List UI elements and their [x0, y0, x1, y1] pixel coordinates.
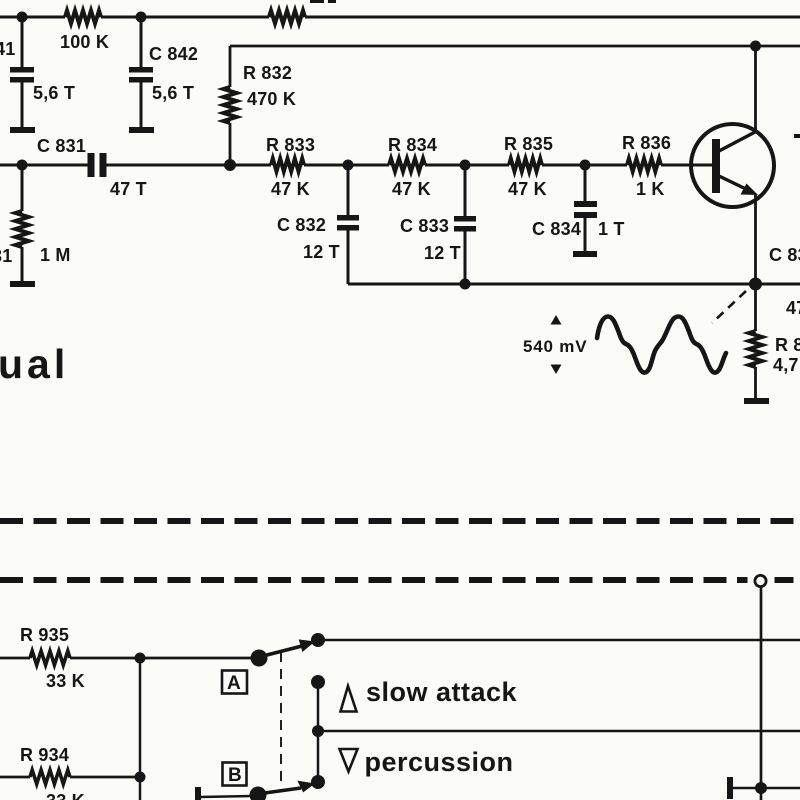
white gap for terminal circle	[748, 574, 775, 587]
switch A arm	[261, 646, 302, 657]
svg-text:100 K: 100 K	[60, 32, 109, 52]
capacitor C841	[10, 67, 34, 73]
svg-text:slow attack: slow attack	[366, 677, 518, 707]
dashed callout to waveform	[712, 291, 746, 323]
marker triangle up (slow attack)	[341, 686, 357, 712]
capacitor C833	[454, 216, 476, 222]
resistor R832	[224, 87, 237, 123]
svg-text:R 833: R 833	[266, 135, 315, 155]
wire C833 top lead	[464, 165, 467, 216]
resistor R837	[749, 331, 762, 367]
svg-text:R 837: R 837	[775, 335, 800, 355]
text fragment cut at top	[310, 0, 324, 3]
svg-text:1 M: 1 M	[40, 245, 71, 265]
text fragment cut at top 2	[328, 0, 336, 3]
wire terminal down	[760, 587, 763, 800]
wire R833 to R834	[304, 164, 389, 167]
dashed coupling line A-B	[280, 652, 282, 787]
resistor R833	[271, 159, 304, 172]
svg-text:33 K: 33 K	[46, 671, 85, 691]
svg-text:R 836: R 836	[622, 133, 671, 153]
svg-text:C 842: C 842	[149, 44, 198, 64]
resistor 100K (top)	[65, 11, 101, 24]
svg-text:1 T: 1 T	[598, 219, 625, 239]
resistor (top, unlabeled)	[269, 11, 305, 24]
svg-text:1 K: 1 K	[636, 179, 665, 199]
wire B lead	[200, 796, 252, 797]
node R934 junction	[135, 772, 146, 783]
resistor R831 1M	[16, 211, 29, 247]
wire C834 bottom lead	[584, 218, 587, 252]
ground R837	[744, 398, 769, 404]
marker triangle down (percussion)	[340, 749, 358, 772]
svg-text:5,6 T: 5,6 T	[152, 83, 194, 103]
svg-text:47 K: 47 K	[392, 179, 431, 199]
ground C842	[129, 127, 154, 133]
wire R832 top lead	[229, 46, 232, 87]
wire R831 top lead	[21, 165, 24, 211]
node percussion junction	[312, 725, 324, 737]
node C834 junction	[580, 160, 591, 171]
switch B common contact	[250, 787, 267, 800]
arrow up marker	[551, 315, 562, 325]
wire R934 to bus	[70, 776, 140, 779]
svg-text:C 831: C 831	[37, 136, 86, 156]
wire feedback rail	[230, 45, 800, 48]
svg-text:R 834: R 834	[388, 135, 437, 155]
switch B arm	[261, 788, 301, 794]
svg-text:C 835: C 835	[769, 245, 800, 265]
resistor R934	[30, 770, 70, 784]
wire C832 top lead	[347, 165, 350, 215]
svg-text:R 835: R 835	[504, 134, 553, 154]
wire R837 top lead	[754, 284, 757, 331]
node emitter junction	[749, 278, 762, 291]
svg-text:ual: ual	[0, 341, 69, 387]
wire top rail middle	[101, 16, 269, 19]
resistor R836	[627, 159, 661, 172]
wire C831 to R833	[105, 164, 271, 167]
svg-text:4,7 K: 4,7 K	[773, 355, 800, 375]
node R935 junction	[135, 653, 146, 664]
wire top rail left	[0, 16, 65, 19]
svg-text:47 K: 47 K	[271, 179, 310, 199]
capacitor C842	[129, 67, 153, 73]
wire percussion row	[318, 730, 800, 732]
wire left bus down	[139, 658, 142, 800]
svg-text:B: B	[228, 765, 242, 786]
svg-text:R 935: R 935	[20, 625, 69, 645]
resistor R935	[30, 651, 70, 665]
resistor R834	[389, 159, 425, 172]
svg-text:41: 41	[0, 39, 15, 59]
wire collector	[754, 46, 757, 132]
svg-text:540 mV: 540 mV	[523, 337, 587, 356]
svg-text:47 K: 47 K	[508, 179, 547, 199]
capacitor C832	[337, 215, 359, 221]
ground C834	[573, 251, 597, 257]
arrow down marker	[551, 365, 562, 375]
svg-text:31: 31	[0, 246, 12, 266]
node collector rail junction	[750, 41, 761, 52]
svg-text:C 834: C 834	[532, 219, 581, 239]
node R832/R833 junction	[224, 159, 236, 171]
wire C842 lead	[140, 17, 143, 67]
svg-text:C 832: C 832	[277, 215, 326, 235]
wire bottom return	[348, 283, 800, 286]
node C841 top	[17, 12, 28, 23]
wire C832 bottom lead	[347, 230, 350, 284]
svg-text:C 833: C 833	[400, 216, 449, 236]
wire C841 lead	[21, 17, 24, 67]
svg-text:5,6 T: 5,6 T	[33, 83, 75, 103]
wire R835 to R836	[542, 164, 627, 167]
waveform 540 mV	[597, 317, 726, 373]
wire C842 to ground	[140, 82, 143, 128]
wire C834 top lead	[584, 165, 587, 201]
box A	[222, 671, 247, 694]
svg-text:A: A	[227, 673, 241, 694]
svg-text:R 934: R 934	[20, 745, 69, 765]
switch B throw contact	[311, 775, 325, 789]
wire R934 left	[0, 776, 30, 779]
wire emitter	[754, 194, 757, 284]
svg-text:12 T: 12 T	[424, 243, 461, 263]
switch A common contact	[251, 650, 268, 667]
capacitor C834	[574, 201, 597, 207]
wire input	[0, 164, 88, 167]
wire C833 bottom lead	[464, 231, 467, 284]
node C832 junction	[343, 160, 354, 171]
svg-text:470 K: 470 K	[247, 89, 296, 109]
terminal bar B lead	[195, 787, 201, 800]
wire contact column	[317, 682, 320, 782]
box B	[223, 763, 247, 786]
svg-text:33 K: 33 K	[46, 791, 85, 800]
svg-text:R 832: R 832	[243, 63, 292, 83]
wire top rail right	[305, 16, 800, 19]
terminal bar bottom right	[727, 777, 733, 799]
terminal circle on separator 2	[755, 575, 766, 586]
wire R834 to R835	[425, 164, 509, 167]
dashed separator line 2	[0, 577, 800, 583]
node C833 bottom junction	[460, 279, 471, 290]
wire R935 left	[0, 657, 30, 660]
dashed separator line 1	[0, 518, 800, 524]
transistor T (NPN)	[691, 124, 774, 207]
switch A throw contact	[311, 633, 325, 647]
contact slow attack	[311, 675, 325, 689]
wire C841 to ground	[21, 82, 24, 128]
label T (clipped crossbar)	[794, 134, 800, 138]
node C833 junction	[460, 160, 471, 171]
wire R837 bottom lead	[754, 367, 757, 399]
node C842 top	[136, 12, 147, 23]
resistor R835	[509, 159, 542, 172]
wire R832 bottom lead	[229, 123, 232, 165]
node bottom right junction	[755, 782, 767, 794]
svg-text:47 T: 47 T	[786, 298, 800, 318]
wire R836 to base	[661, 164, 712, 167]
capacitor C831	[88, 153, 95, 177]
ground C841	[10, 127, 35, 133]
wire R831 bottom lead	[21, 247, 24, 282]
wire slow attack row	[318, 639, 800, 641]
wire R935 to switch A	[70, 657, 251, 660]
node input junction	[17, 160, 28, 171]
svg-text:47 T: 47 T	[110, 179, 147, 199]
wire bottom right row	[733, 787, 800, 790]
ground R831	[10, 281, 35, 287]
svg-text:12 T: 12 T	[303, 242, 340, 262]
svg-text:percussion: percussion	[365, 747, 514, 777]
